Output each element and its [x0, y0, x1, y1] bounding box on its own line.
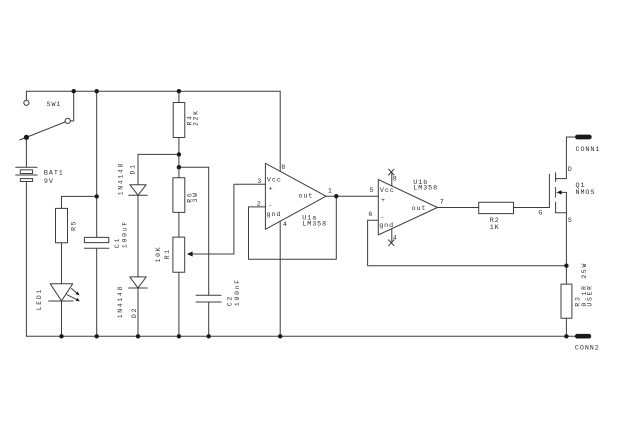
svg-text:1N4148: 1N4148: [117, 285, 124, 319]
svg-text:CONN1: CONN1: [576, 146, 601, 154]
svg-text:out: out: [412, 205, 427, 213]
svg-text:4: 4: [393, 235, 398, 243]
svg-text:R5: R5: [70, 220, 77, 231]
svg-text:S: S: [568, 217, 573, 225]
svg-text:9V: 9V: [44, 178, 54, 186]
svg-text:SW1: SW1: [47, 101, 62, 109]
svg-text:-: -: [268, 202, 273, 210]
svg-text:1: 1: [328, 187, 333, 195]
svg-text:6: 6: [368, 211, 373, 219]
svg-text:LM358: LM358: [302, 220, 327, 228]
svg-text:8: 8: [281, 164, 286, 172]
svg-text:100uF: 100uF: [121, 220, 128, 248]
svg-text:NMOS: NMOS: [576, 189, 596, 197]
svg-text:LM358: LM358: [413, 185, 438, 193]
svg-text:7: 7: [440, 198, 445, 206]
svg-text:100nF: 100nF: [234, 278, 241, 306]
svg-text:LED1: LED1: [36, 288, 43, 310]
svg-text:D: D: [568, 166, 573, 174]
svg-text:3: 3: [257, 178, 262, 186]
svg-text:1N4148: 1N4148: [117, 162, 124, 196]
svg-text:8: 8: [393, 175, 398, 183]
svg-text:gnd: gnd: [379, 222, 394, 230]
svg-text:3W: 3W: [192, 191, 199, 202]
svg-text:+: +: [381, 197, 386, 205]
svg-text:10K: 10K: [155, 246, 162, 263]
svg-text:G: G: [538, 209, 543, 217]
svg-text:D1: D1: [130, 163, 137, 174]
svg-text:1K: 1K: [490, 224, 500, 232]
svg-text:gnd: gnd: [267, 211, 282, 219]
svg-text:Vcc: Vcc: [267, 177, 282, 185]
svg-text:BAT1: BAT1: [44, 170, 64, 178]
svg-text:4: 4: [283, 221, 288, 229]
svg-text:Vcc: Vcc: [380, 187, 395, 195]
svg-text:USER: USER: [586, 284, 593, 306]
svg-text:C1: C1: [114, 237, 121, 248]
svg-text:2: 2: [257, 201, 262, 209]
svg-text:out: out: [299, 193, 314, 201]
svg-text:D2: D2: [131, 307, 138, 318]
svg-text:C2: C2: [226, 295, 233, 306]
svg-text:22K: 22K: [192, 109, 199, 126]
svg-text:+: +: [269, 185, 274, 193]
svg-text:5: 5: [370, 187, 375, 195]
svg-text:CONN2: CONN2: [575, 344, 600, 352]
svg-text:R1: R1: [164, 248, 171, 259]
